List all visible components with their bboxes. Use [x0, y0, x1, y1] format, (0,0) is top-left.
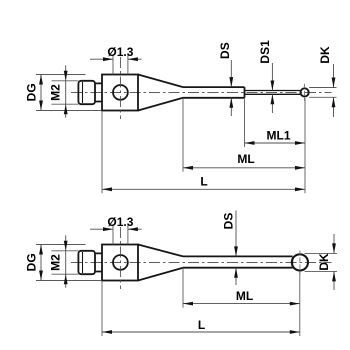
svg-text:DK: DK: [317, 253, 331, 271]
dimension Ø1.3 of upper stylus: extension lines: [112, 55, 114, 75]
dimension DK of upper stylus: dimension line with outside arrows: [333, 64, 335, 88]
dimension Ø1.3 of lower stylus: extension lines: [112, 225, 114, 245]
node: taper cone of lower stylus: [138, 245, 183, 281]
node: relief groove neck of lower stylus: [95, 253, 102, 271]
wire: horizontal dash-dot centerline of upper stylus: [71, 91, 332, 93]
svg-text:DK: DK: [318, 46, 332, 64]
svg-text:DS: DS: [222, 213, 236, 230]
node: M2 threaded shank of lower stylus: [78, 251, 95, 274]
svg-text:DS: DS: [218, 42, 232, 59]
dimension M2 of lower stylus: extension lines: [52, 250, 79, 252]
node: thin stem DS1 of upper stylus: [245, 91, 301, 95]
dimension DG of upper stylus: extension lines: [36, 74, 86, 76]
node: cross hole Ø1.3 of lower stylus: [113, 255, 128, 270]
svg-text:ML1: ML1: [267, 128, 291, 142]
dimension DS of upper stylus: dimension line with outside arrows: [230, 60, 232, 87]
dimension DK of lower stylus: dimension line with outside arrows: [333, 234, 335, 253]
dimension ML1 of upper stylus: dimension line with arrows: [245, 142, 306, 144]
svg-text:ML: ML: [237, 152, 254, 166]
svg-text:Ø1.3: Ø1.3: [107, 215, 133, 229]
node: cross hole Ø1.3 of upper stylus: [113, 85, 128, 100]
node: taper cone of upper stylus: [138, 75, 183, 111]
node: stem DS of lower stylus: [183, 256, 293, 267]
dimension Ø1.3 of upper stylus: dimension line with outside arrows: [90, 58, 113, 60]
dimension L of lower stylus: extension line: [101, 281, 103, 336]
node: holder block of lower stylus: [102, 245, 138, 281]
wire: dashed cross through ball of lower stylus: [299, 250, 301, 274]
dimension DG of upper stylus: dimension line with arrows: [40, 75, 42, 111]
dimension DG of lower stylus: extension lines: [36, 244, 86, 246]
svg-text:L: L: [198, 318, 205, 332]
dimension DS1 of upper stylus: dimension line with outside arrows: [271, 63, 273, 91]
node: holder block of upper stylus: [102, 75, 138, 111]
svg-text:ML: ML: [236, 289, 253, 303]
dimension ML1 of upper stylus: extension lines: [244, 98, 246, 147]
node: ruby ball DK of lower stylus: [292, 254, 308, 270]
wire: vertical dashed centerline through hole of upper stylus: [119, 57, 121, 119]
dimension DG of lower stylus: dimension line with arrows: [40, 245, 42, 281]
dimension M2 of upper stylus: dimension line with outside arrows: [65, 65, 67, 117]
dimension DK of lower stylus: extension lines: [305, 252, 338, 254]
svg-text:M2: M2: [48, 254, 62, 271]
dimension ML of upper stylus: dimension line with arrows: [183, 167, 305, 169]
dimension Ø1.3 of lower stylus: dimension line with outside arrows: [90, 228, 113, 230]
wire: vertical dashed centerline through hole of lower stylus: [119, 227, 121, 289]
dimension L of lower stylus: dimension line with arrows: [102, 331, 300, 333]
svg-text:M2: M2: [48, 84, 62, 101]
dimension L of upper stylus: dimension line with arrows: [102, 188, 305, 190]
node: relief groove neck of upper stylus: [95, 83, 102, 101]
node: ruby ball DK of upper stylus: [301, 88, 309, 96]
dimension ML of lower stylus: extension lines: [182, 268, 184, 308]
dimension L of upper stylus: extension line: [101, 111, 103, 194]
wire: horizontal dash-dot centerline of lower stylus: [71, 261, 332, 263]
dimension M2 of upper stylus: extension lines: [52, 80, 79, 82]
dimension DK of upper stylus: extension lines: [309, 87, 336, 89]
dimension M2 of lower stylus: dimension line with outside arrows: [65, 235, 67, 287]
dimension ML of upper stylus: extension line: [182, 98, 184, 172]
dimension DS of lower stylus: dimension line with outside arrows: [235, 211, 237, 257]
svg-text:Ø1.3: Ø1.3: [107, 45, 133, 59]
node: ball flat junction of lower stylus: [292, 257, 294, 268]
svg-text:DG: DG: [25, 83, 39, 101]
svg-text:L: L: [200, 175, 207, 189]
node: M2 threaded shank of upper stylus: [78, 81, 95, 104]
svg-text:DS1: DS1: [258, 40, 272, 64]
node: stem DS of upper stylus: [183, 87, 245, 98]
wire: dashed cross through ball of upper stylus: [304, 84, 306, 101]
dimension ML of lower stylus: dimension line with arrows: [183, 303, 300, 305]
svg-text:DG: DG: [25, 253, 39, 271]
